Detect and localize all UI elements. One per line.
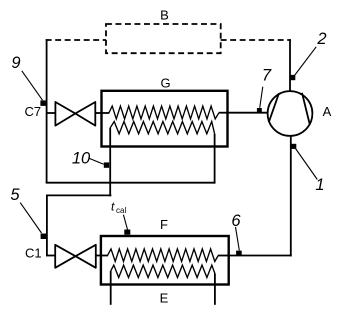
svg-text:E: E [160,291,169,306]
G upper coil zigzag [109,106,219,119]
evaporator F box [101,236,229,285]
wire: valve C1 to F box [96,255,108,257]
valve C1 bowtie [55,245,96,268]
pointer line to label 9 [22,71,43,100]
wire: H1 horizontal from left vertical to G lower right [46,182,216,184]
svg-text:cal: cal [116,206,126,215]
pointer line to label 1 [296,149,318,180]
F upper coil zigzag [108,249,219,262]
wire: bottom horizontal from right vertical to F box [229,255,292,257]
wire: right vertical down to compressor top [289,39,291,92]
wire: valve C7 outlet into G upper coil [96,112,110,114]
pointer line to label 6 [236,227,240,250]
node 7 square [257,108,262,113]
wire: left vertical to valve C7 [46,112,56,114]
compressor A inner vanes [269,93,279,122]
G lower coil zigzag [110,122,214,134]
pointer line to label 2 [295,47,317,76]
wire: G lower coil right end down to H1 [214,134,216,184]
node 6 square [236,251,242,256]
node 10 square [104,162,109,167]
wire: compressor discharge bottom vertical [290,136,292,257]
svg-text:t: t [111,200,115,214]
svg-text:9: 9 [11,54,20,72]
wire: V_C1 vertical down to valve C1 level [46,195,48,257]
wire: F upper coil to box right edge [218,255,229,257]
condenser B dashed box [106,24,221,53]
svg-text:1: 1 [315,176,324,194]
svg-text:F: F [160,217,168,232]
svg-text:G: G [160,76,170,91]
svg-text:10: 10 [72,150,91,168]
svg-text:C1: C1 [25,246,42,261]
pointer line to label t_cal [123,215,127,230]
node 2 square [290,75,295,80]
svg-text:6: 6 [231,212,241,230]
pointer line to label 5 [20,203,41,233]
wire: E right lead down through box bottom [214,274,216,305]
svg-text:B: B [160,8,169,23]
valve C7 bowtie [55,102,95,126]
svg-text:2: 2 [316,30,326,48]
svg-text:5: 5 [10,186,20,204]
wire: left vertical from top corner down to H1 corner [46,39,48,183]
svg-text:7: 7 [262,66,272,84]
F lower coil zigzag (E circuit) [111,265,215,277]
pointer line to label 7 [260,87,263,108]
heat exchanger G box [102,91,228,147]
wire: E left lead down through box bottom [110,271,112,305]
compressor A circle [268,91,313,136]
node 5 square [41,234,47,240]
node 1 square [291,144,296,149]
wire: compressor suction to G box [228,112,268,114]
wire: G lower coil left end down (V10) [109,128,111,197]
svg-text:C7: C7 [25,104,42,119]
node 9 square [40,100,46,106]
svg-text:A: A [323,104,332,119]
wire: dashed horizontal from box B to right vertical [221,39,291,41]
wire: H2 horizontal from V10 to left [46,194,111,196]
pointer line to label 10 [89,158,104,164]
node t_cal square on F box top [124,230,130,235]
wire: G upper coil to box right edge [219,112,228,114]
wire: dashed horizontal from left vertical to box B [46,39,106,41]
wire: corner to valve C1 [46,255,56,257]
